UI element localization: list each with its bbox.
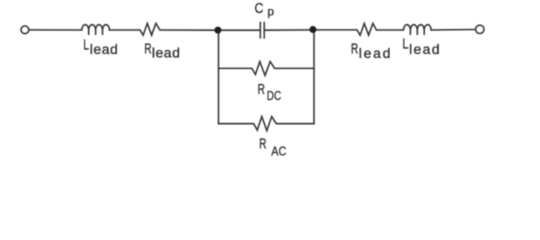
svg-text:lead: lead: [409, 41, 439, 57]
svg-text:p: p: [267, 4, 274, 18]
svg-text:lead: lead: [359, 45, 391, 61]
svg-text:L: L: [83, 36, 89, 53]
svg-text:DC: DC: [267, 88, 281, 103]
svg-text:R: R: [351, 41, 359, 58]
svg-text:R: R: [258, 81, 265, 98]
svg-text:C: C: [255, 0, 264, 17]
svg-text:AC: AC: [271, 144, 286, 159]
svg-text:lead: lead: [90, 41, 118, 57]
svg-text:lead: lead: [152, 45, 180, 61]
svg-text:R: R: [259, 135, 267, 152]
svg-text:L: L: [403, 36, 409, 53]
svg-text:R: R: [144, 41, 152, 58]
